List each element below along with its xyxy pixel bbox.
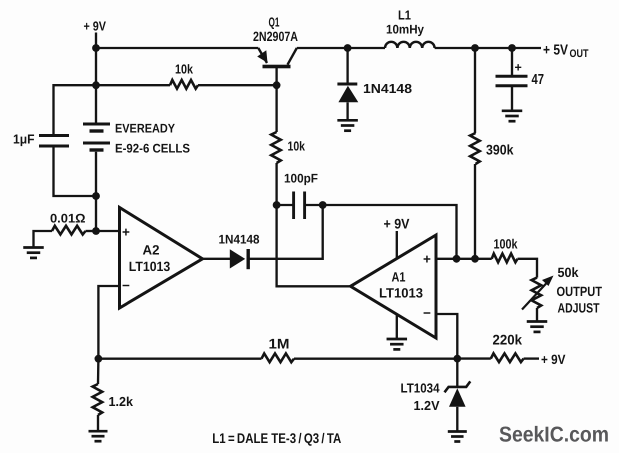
svg-text:−: − (423, 306, 431, 321)
wire base node to 10k (275, 85, 277, 132)
svg-text:ADJUST: ADJUST (558, 301, 601, 316)
svg-text:390k: 390k (486, 141, 514, 157)
label E-92-6 CELLS (115, 142, 190, 156)
node battery bottom junction (92, 192, 100, 200)
wire +9V stem (95, 33, 97, 49)
label L1 (398, 8, 411, 23)
resistor R2 0.01 ohm (52, 226, 86, 235)
ground (D1) (337, 120, 358, 130)
label 1uF (13, 132, 35, 147)
wire D2 cathode to feedback corner (248, 205, 323, 259)
op-amp U1 A1 LT1013 (351, 235, 437, 338)
svg-text:10k: 10k (175, 62, 194, 77)
wire A2 output (203, 258, 231, 260)
label A1 plus input (423, 252, 431, 267)
svg-text:1.2k: 1.2k (109, 394, 134, 409)
wire base node down to A1 output (277, 205, 351, 286)
node Q1 base junction (273, 81, 281, 89)
label 10k (horizontal resistor) (175, 62, 194, 77)
wire 100k to pot (518, 259, 538, 278)
power +9V (top left) (84, 19, 107, 34)
capacitor C3 47uF (496, 76, 528, 86)
wire D1 anode to ground (346, 102, 348, 120)
svg-text:50k: 50k (558, 265, 579, 280)
wire D1 cathode lead (346, 48, 348, 84)
label LT1034 (401, 381, 441, 396)
svg-text:+ 5V: + 5V (543, 42, 568, 58)
ground (1.2k) (89, 431, 108, 441)
ground (0.01 ohm) (23, 248, 44, 258)
label L1 DALE note (212, 430, 341, 446)
capacitor C1 1uF (39, 136, 69, 147)
wire A1 +input row (436, 258, 492, 260)
wire A1 ground pin (396, 314, 398, 339)
label 0.01 ohm (50, 212, 86, 226)
transistor Q1 emitter (257, 48, 267, 63)
label 1N4148 (D1) (363, 81, 412, 96)
zener D3 LT1034 bar (445, 381, 471, 392)
svg-text:1μF: 1μF (13, 132, 35, 147)
transistor Q1 base bar (263, 65, 291, 69)
wire A2 -input (98, 286, 119, 359)
label 100pF (284, 172, 318, 186)
node feedback junction (453, 255, 461, 263)
svg-text:100pF: 100pF (284, 172, 318, 186)
svg-text:LT1034: LT1034 (401, 381, 441, 396)
node 100pF right junction (319, 201, 327, 209)
label LT1013 (A2) (129, 259, 171, 274)
wire 100pF left lead (277, 204, 293, 206)
resistor R8 220k (491, 353, 524, 362)
label 10k (vertical resistor) (288, 139, 306, 154)
svg-text:Q1: Q1 (269, 14, 280, 29)
wire 1uF bottom (54, 147, 97, 196)
ground (A1) (387, 339, 408, 349)
label A2 (143, 243, 160, 258)
resistor R4 390k (470, 133, 480, 164)
label ADJUST (558, 301, 601, 316)
svg-text:EVEREADY: EVEREADY (115, 122, 176, 136)
label 10mHy (386, 23, 424, 37)
wire 10k to 100pF node (275, 163, 277, 205)
resistor R5 100k (492, 254, 518, 263)
svg-text:+: + (122, 225, 130, 240)
ground (50k pot) (527, 322, 548, 332)
battery B1 long plate 2 (83, 142, 110, 145)
wire feedback to A1 +input (323, 205, 457, 259)
wire 0.01 left lead (34, 231, 53, 247)
transistor Q1 collector (288, 48, 297, 65)
wire A1 -input (436, 314, 457, 359)
capacitor C2 100pF (294, 192, 305, 220)
resistor R3 10k (vertical) (271, 132, 281, 163)
wire battery bottom (95, 152, 97, 231)
label 1.2k (109, 394, 134, 409)
wire 220k left lead (457, 357, 491, 359)
power +9V (220k) (541, 352, 566, 367)
pot wiper arrow (522, 276, 554, 310)
watermark SeekIC.com (499, 423, 609, 447)
wire 10k right lead (198, 84, 277, 86)
label 1.2V (414, 398, 440, 413)
label LT1013 (A1) (379, 286, 423, 301)
node 1M/1.2k junction (95, 355, 103, 363)
label 2N2907A (253, 29, 298, 44)
svg-text:LT1013: LT1013 (129, 259, 171, 274)
wire pot to ground (536, 308, 538, 321)
diode D2 1N4148 (230, 249, 248, 269)
wire 0.01 right lead (86, 230, 97, 232)
svg-text:OUTPUT: OUTPUT (557, 284, 603, 299)
svg-text:+ 9V: + 9V (384, 216, 411, 232)
svg-text:L1 = DALE TE-3 / Q3 / TA: L1 = DALE TE-3 / Q3 / TA (212, 430, 341, 446)
svg-text:10k: 10k (288, 139, 306, 154)
label +5V OUT (543, 42, 589, 60)
node LT1034 junction (453, 355, 461, 363)
resistor R1 10k (horizontal) (170, 80, 198, 89)
wire 10k left lead (96, 84, 170, 86)
wire 47uF bottom lead (511, 87, 513, 110)
label 390k (486, 141, 514, 157)
battery B1 short plate 2 (90, 148, 104, 151)
node top-left rail junction (92, 44, 100, 52)
wire 1.2k top lead (97, 359, 100, 384)
svg-text:+ 9V: + 9V (84, 19, 107, 34)
label 220k (493, 331, 523, 347)
ground (47uF) (502, 111, 523, 121)
svg-text:A1: A1 (392, 270, 406, 285)
wire battery top feed (95, 48, 97, 123)
wire 1M row left (98, 358, 261, 360)
label +9V (A1 supply) (384, 216, 411, 232)
label A1 minus input (423, 306, 431, 321)
resistor R6 50k pot (532, 278, 542, 308)
wire Q1 base lead (275, 67, 277, 86)
label EVEREADY (115, 122, 176, 136)
svg-text:SeekIC.com: SeekIC.com (499, 423, 609, 447)
wire L1 right lead to output (435, 47, 541, 49)
node 390k junction (471, 44, 479, 52)
wire 1M row right (294, 358, 457, 360)
wire collector rail (297, 47, 348, 49)
svg-text:OUT: OUT (570, 48, 589, 60)
svg-text:1N4148: 1N4148 (219, 232, 260, 246)
svg-text:100k: 100k (494, 236, 518, 251)
svg-text:A2: A2 (143, 243, 160, 258)
label 100k (494, 236, 518, 251)
svg-text:0.01Ω: 0.01Ω (50, 212, 86, 226)
svg-text:220k: 220k (493, 331, 523, 347)
svg-text:+ 9V: + 9V (541, 352, 566, 367)
node battery/10k junction (92, 81, 100, 89)
node A2 +input junction (92, 227, 100, 235)
ground (LT1034) (448, 432, 467, 442)
node 390k bottom junction (471, 255, 479, 263)
label 1M (269, 335, 290, 351)
wire A2 +input (96, 230, 120, 232)
wire 47uF top lead (511, 48, 513, 75)
wire 1.2k bottom lead (97, 415, 99, 431)
battery B1 short plate 1 (90, 129, 104, 132)
node D1/L1 junction (344, 44, 352, 52)
svg-text:+: + (515, 61, 522, 75)
label 1N4148 (D2) (219, 232, 260, 246)
wire 390k bottom lead (474, 164, 476, 259)
svg-text:LT1013: LT1013 (379, 286, 423, 301)
wire A1 supply pin (396, 231, 398, 260)
resistor R9 1.2k (93, 384, 103, 415)
label + (47uF polarity) (515, 61, 522, 75)
label A2 plus input (122, 225, 130, 240)
svg-text:1N4148: 1N4148 (363, 81, 412, 96)
svg-text:10mHy: 10mHy (386, 23, 424, 37)
zener D3 LT1034 triangle (449, 388, 466, 407)
diode D1 1N4148 (vertical) (337, 84, 358, 102)
wire 100pF right lead (305, 204, 323, 206)
wire 390k top lead (474, 48, 476, 133)
node 47uF junction (508, 44, 516, 52)
svg-text:1.2V: 1.2V (414, 398, 440, 413)
wire LT1034 top lead (456, 359, 458, 387)
svg-text:E-92-6 CELLS: E-92-6 CELLS (115, 142, 190, 156)
svg-text:47: 47 (532, 72, 545, 88)
op-amp U2 A2 LT1013 (120, 208, 203, 309)
svg-text:2N2907A: 2N2907A (253, 29, 298, 44)
svg-text:+: + (423, 252, 431, 267)
wire 220k right lead (524, 357, 539, 359)
node 100pF left junction (273, 201, 281, 209)
wire +9V rail to Q1 emitter (96, 47, 258, 49)
inductor L1 10mHy (385, 42, 435, 48)
label 47 (532, 72, 545, 88)
wire L1 left lead (348, 47, 385, 49)
label Q1 (269, 14, 280, 29)
label A2 minus input (122, 278, 130, 293)
wire to 1uF top (54, 85, 97, 134)
label A1 (392, 270, 406, 285)
resistor R7 1M (262, 354, 295, 363)
svg-text:L1: L1 (398, 8, 411, 23)
label OUTPUT (557, 284, 603, 299)
label 50k (558, 265, 579, 280)
wire LT1034 to ground (456, 407, 458, 431)
battery B1 long plate 1 (83, 123, 110, 126)
svg-text:1M: 1M (269, 335, 290, 351)
svg-text:−: − (122, 278, 130, 293)
